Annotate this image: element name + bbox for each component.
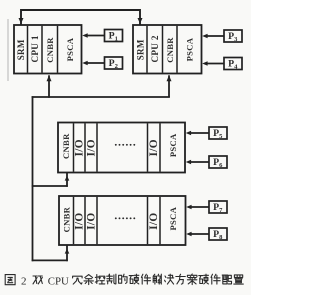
io-rack-B divider IO2|dots	[96, 197, 98, 244]
svg-text:I/O: I/O	[148, 213, 160, 230]
caption char kong	[95, 275, 105, 284]
arrow left into rack from P2	[82, 61, 87, 65]
caption char jian	[211, 274, 220, 284]
caption char ying	[199, 274, 209, 284]
box P8	[209, 228, 227, 240]
rack2 frame (CPU rack 2)	[133, 25, 202, 74]
io-rack-B divider CNBR|IO1	[73, 197, 75, 244]
caption char tu	[5, 275, 15, 285]
io-rack-B frame (bottom)	[59, 196, 186, 245]
svg-text:CPU 2: CPU 2	[150, 35, 160, 62]
arrow up into rack1 CNBR bottom	[47, 75, 52, 81]
io-rack-B divider IO1|IO2	[84, 197, 86, 244]
wire: top link between rack1 SRM and rack2 SRM	[21, 10, 140, 25]
box P4	[224, 58, 242, 70]
rack1 frame (CPU rack 1)	[14, 25, 82, 74]
dots ...... (io-rack-A)	[115, 144, 135, 146]
svg-text:CNBR: CNBR	[61, 206, 71, 232]
wire: connector to P6	[190, 161, 209, 163]
arrow down into rack1 SRM top	[19, 18, 24, 24]
svg-text:PSCA: PSCA	[185, 37, 195, 61]
dots ...... (io-rack-B)	[115, 217, 135, 219]
box P6	[209, 156, 227, 168]
rack1 divider SRM|CPU1	[27, 26, 29, 73]
io-rack-A frame (middle)	[58, 123, 185, 173]
wire: connector to P5	[190, 132, 209, 134]
arrow left into rack from P8	[186, 232, 191, 236]
svg-text:P1: P1	[109, 30, 118, 42]
svg-text:PSCA: PSCA	[168, 133, 178, 157]
caption char shuang	[33, 276, 42, 284]
svg-text:P8: P8	[213, 229, 223, 241]
svg-text:CNBR: CNBR	[165, 37, 175, 63]
wire: left trunk	[32, 96, 34, 261]
arrow left into rack from P4	[202, 61, 207, 65]
svg-text:2: 2	[21, 276, 27, 288]
io-rack-A divider dots|IO3	[147, 123, 149, 171]
wire: connector to P1	[87, 35, 105, 37]
caption char ying	[129, 274, 139, 284]
svg-text:I/O: I/O	[148, 139, 160, 156]
caption char zhi2	[234, 275, 244, 284]
arrow up into rack2 CNBR bottom	[167, 75, 172, 81]
svg-text:CPU: CPU	[48, 276, 69, 288]
svg-text:I/O: I/O	[85, 213, 97, 230]
io-rack-B divider dots|IO3	[147, 197, 149, 244]
rack2 divider CPU2|CNBR	[162, 26, 164, 73]
caption char jie	[153, 274, 161, 284]
wire: connector to P3	[206, 35, 224, 37]
caption char rong	[73, 276, 83, 284]
faint scan artifact line at left	[7, 19, 9, 81]
svg-text:I/O: I/O	[74, 139, 86, 156]
arrow down into rack2 SRM top	[138, 18, 143, 24]
svg-text:P6: P6	[213, 157, 223, 169]
svg-text:CPU 1: CPU 1	[30, 35, 40, 62]
svg-text:I/O: I/O	[85, 139, 97, 156]
caption char pei	[222, 275, 231, 284]
svg-text:CNBR: CNBR	[45, 37, 55, 63]
arrow left into rack from P6	[186, 160, 191, 164]
io-rack-A divider IO1|IO2	[84, 123, 86, 171]
wire: riser to rack2 CNBR	[168, 75, 170, 97]
box P3	[224, 30, 242, 42]
caption char jue	[165, 274, 174, 284]
rack2 divider SRM|CPU2	[146, 26, 148, 73]
arrow up into io-rack-A CNBR bottom	[65, 176, 70, 181]
caption char yu	[84, 275, 93, 285]
wire: connector to P7	[190, 206, 209, 208]
svg-text:P2: P2	[109, 58, 119, 70]
caption char fang	[176, 274, 186, 284]
svg-text:I/O: I/O	[74, 213, 86, 230]
caption char zhi	[107, 274, 116, 284]
svg-text:P7: P7	[213, 202, 223, 214]
box P7	[209, 201, 227, 213]
wire: bottom run to io-rack-B	[32, 259, 68, 261]
rack2 divider CNBR|PSCA	[176, 26, 178, 73]
box P2	[105, 57, 123, 69]
svg-text:SRM: SRM	[135, 39, 145, 60]
rack1 divider CPU1|CNBR	[41, 26, 43, 73]
wire: connector to P2	[87, 62, 105, 64]
caption char de	[119, 274, 128, 283]
svg-text:P5: P5	[213, 128, 223, 140]
box P1	[105, 30, 123, 42]
caption char jian	[141, 274, 150, 284]
io-rack-A divider IO3|PSCA	[159, 123, 161, 171]
svg-text:PSCA: PSCA	[168, 206, 178, 230]
wire: branch to io-rack-A	[32, 185, 68, 187]
wire: connector to P4	[206, 63, 224, 65]
wire: riser to io-rack-B CNBR	[66, 245, 68, 261]
arrow left into rack from P1	[82, 33, 87, 37]
arrow up into io-rack-B CNBR bottom	[65, 249, 70, 254]
arrow left into rack from P3	[202, 34, 207, 38]
io-rack-B divider IO3|PSCA	[159, 197, 161, 244]
caption char an	[187, 274, 197, 285]
io-rack-A divider CNBR|IO1	[73, 123, 75, 171]
wire: horizontal bus y=97	[32, 96, 170, 98]
svg-text:SRM: SRM	[16, 39, 26, 60]
wire: connector to P8	[190, 233, 209, 235]
arrow left into rack from P5	[186, 131, 191, 135]
svg-text:CNBR: CNBR	[61, 133, 71, 159]
arrow left into rack from P7	[186, 205, 191, 209]
svg-text:PSCA: PSCA	[65, 37, 75, 61]
io-rack-A divider IO2|dots	[96, 123, 98, 171]
rack1 divider CNBR|PSCA	[57, 26, 59, 73]
wire: riser to io-rack-A CNBR	[66, 172, 68, 187]
box P5	[209, 127, 227, 139]
svg-text:P4: P4	[228, 58, 238, 70]
wire: drop from rack1 CNBR to bus	[48, 75, 50, 98]
svg-text:P3: P3	[228, 31, 238, 43]
